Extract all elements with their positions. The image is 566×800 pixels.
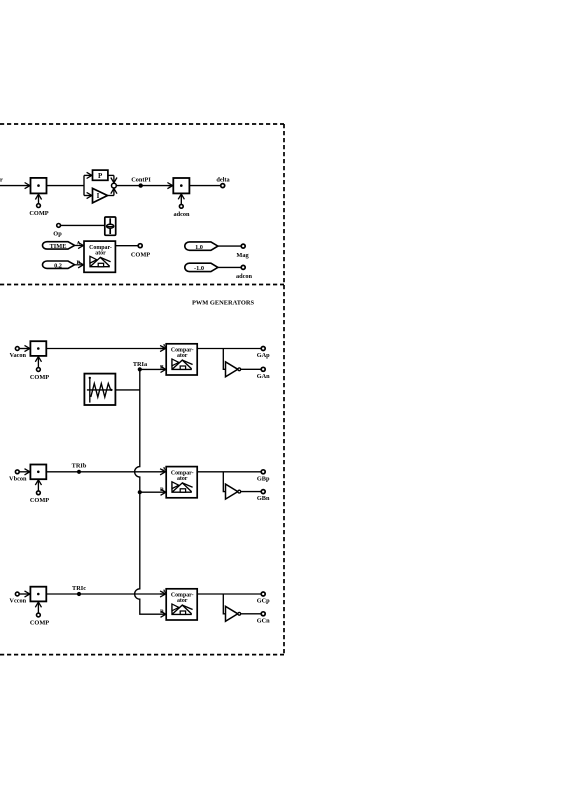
svg-text:B: B: [160, 609, 164, 615]
wire comparator output to COMP: [115, 245, 138, 247]
svg-text:GBn: GBn: [257, 495, 270, 502]
svg-text:Mag: Mag: [236, 252, 249, 259]
wire TRIa to U4 B: [140, 364, 166, 370]
svg-text:r: r: [0, 177, 3, 184]
dashed divider between controller box and PWM box: [0, 284, 284, 286]
node Vbcon: [9, 470, 27, 482]
node Mag: [236, 244, 249, 259]
node TRIa: [133, 361, 148, 371]
wire branch to inverter N2: [223, 472, 225, 492]
wire Vbcon to M4: [19, 471, 29, 473]
svg-text:B: B: [160, 487, 164, 493]
node adcon output: [236, 265, 253, 280]
comparator U6: [160, 589, 197, 620]
svg-text:0.2: 0.2: [54, 262, 62, 269]
svg-text:P: P: [98, 172, 103, 180]
svg-text:B: B: [77, 260, 81, 266]
node COMP input to M4: [30, 480, 49, 504]
PI controller branch split wire: [84, 175, 92, 195]
node COMP output: [131, 244, 150, 259]
multiplier M5: [30, 587, 46, 602]
svg-text:A: A: [77, 241, 81, 247]
node Vacon: [10, 347, 27, 359]
wire Vccon to M5: [19, 593, 29, 595]
comparator U4: [160, 343, 197, 375]
probe block U3: [105, 217, 116, 235]
svg-text:TRIa: TRIa: [133, 361, 148, 368]
node adcon input to M2: [173, 194, 190, 218]
svg-text:GCp: GCp: [257, 598, 270, 605]
wire Op to probe: [61, 224, 105, 226]
svg-text:GAp: GAp: [257, 352, 270, 359]
svg-text:I: I: [97, 192, 100, 200]
svg-text:COMP: COMP: [131, 252, 150, 259]
svg-text:Vccon: Vccon: [9, 598, 26, 605]
wire U5 output to GBp: [197, 471, 261, 473]
node TRIc: [72, 585, 86, 596]
svg-text:B: B: [160, 364, 164, 370]
node Op: [53, 224, 62, 238]
P block: [93, 170, 108, 180]
wire trunk junction to U5 B: [140, 487, 166, 493]
svg-text:TIME: TIME: [50, 243, 67, 250]
svg-text:Op: Op: [53, 231, 62, 238]
svg-text:ator: ator: [177, 598, 188, 604]
comparator U2: [84, 241, 115, 272]
svg-text:Vbcon: Vbcon: [9, 475, 27, 482]
summing junction: [112, 183, 117, 188]
comparator U5: [160, 467, 197, 498]
svg-text:GCn: GCn: [257, 617, 270, 624]
dashed border bottom of PWM box: [0, 654, 284, 656]
node GAp: [257, 347, 270, 360]
wire N3 to GCn: [241, 613, 262, 615]
node GCn: [257, 612, 270, 625]
node COMP input to M5: [30, 602, 49, 626]
wire M1 to PI block: [47, 185, 85, 187]
node GBp: [257, 470, 270, 483]
wire M4 to comparator U5 A: [46, 471, 165, 473]
inverter N1: [226, 362, 241, 377]
dashed border top of controller box: [0, 123, 284, 125]
svg-text:COMP: COMP: [30, 619, 49, 626]
svg-text:COMP: COMP: [29, 210, 48, 217]
wire I output to summer: [108, 189, 114, 196]
triangle wave generator G1: [84, 374, 115, 405]
node GCp: [257, 592, 270, 605]
inverter N3: [226, 606, 241, 621]
dashed border right edge: [283, 124, 285, 655]
node GBn: [257, 490, 270, 503]
constant block TIME: [43, 242, 75, 250]
svg-text:adcon: adcon: [173, 211, 190, 218]
constant block -1.0: [185, 263, 218, 272]
node COMP input to M1: [29, 195, 48, 217]
svg-text:Vacon: Vacon: [10, 352, 27, 359]
svg-text:-1.0: -1.0: [194, 265, 204, 272]
multiplier M4: [30, 465, 46, 480]
wire -1.0 to adcon: [218, 266, 241, 268]
wire 0.2 to comparator B: [75, 260, 83, 266]
wire N1 to GAn: [241, 368, 262, 370]
svg-text:adcon: adcon: [236, 273, 253, 280]
wire Vacon to M3: [19, 348, 29, 350]
wire generator to trunk: [115, 389, 139, 391]
svg-text:GAn: GAn: [257, 373, 270, 380]
node TRIb: [72, 463, 87, 474]
svg-text:ator: ator: [177, 476, 188, 482]
svg-text:delta: delta: [216, 177, 230, 184]
wire branch to inverter N1: [223, 349, 225, 370]
wire carrier trunk: [135, 369, 166, 614]
svg-text:ContPI: ContPI: [131, 177, 151, 184]
wire N2 to GBn: [241, 491, 262, 493]
wire TIME to comparator A: [75, 241, 83, 247]
svg-text:ator: ator: [177, 353, 188, 359]
wire error input (cut off at left edge): [0, 177, 30, 186]
wire M5 to comparator U6 A: [46, 593, 165, 595]
svg-text:1.0: 1.0: [195, 244, 203, 251]
wire M2 to delta terminal: [189, 185, 220, 187]
multiplier M1: [31, 178, 47, 194]
wire summer to M2: [116, 185, 173, 187]
svg-text:TRIc: TRIc: [72, 585, 86, 592]
I block (integrator triangle): [93, 188, 108, 203]
svg-text:COMP: COMP: [30, 497, 49, 504]
node delta: [216, 177, 230, 188]
node GAn: [257, 367, 270, 380]
node COMP input to M3: [30, 357, 49, 381]
wire U6 output to GCp: [197, 593, 261, 595]
node junction trunk to U5 B: [138, 490, 142, 494]
svg-text:TRIb: TRIb: [72, 463, 87, 470]
svg-text:ator: ator: [95, 251, 106, 257]
node Vccon: [9, 592, 26, 604]
multiplier M2: [168, 178, 189, 193]
wire M3 to comparator U4 A: [46, 348, 165, 350]
inverter N2: [226, 484, 241, 499]
multiplier M3: [30, 341, 46, 356]
svg-text:GBp: GBp: [257, 475, 270, 482]
wire U4 output to GAp: [197, 348, 261, 350]
wire branch to inverter N3: [223, 594, 225, 614]
svg-text:COMP: COMP: [30, 374, 49, 381]
constant block 1.0: [185, 242, 218, 251]
node ContPI: [131, 177, 151, 188]
wire 1.0 to Mag: [218, 245, 241, 247]
wire P output to summer: [108, 175, 114, 182]
svg-text:PWM GENERATORS: PWM GENERATORS: [192, 300, 255, 307]
constant block 0.2: [43, 261, 75, 269]
